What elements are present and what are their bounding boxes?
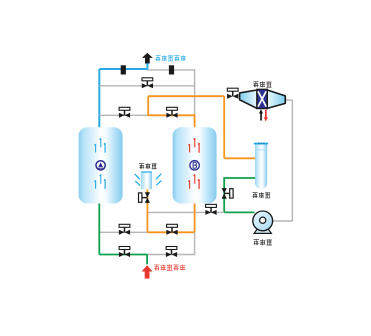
pipe: grey riser row3-row4 at tower B column bbox=[147, 232, 194, 255]
pipe: row2b grey left segment bbox=[99, 114, 148, 116]
muffler exhaust spray lines bbox=[135, 174, 161, 185]
green line valve at heater loop bbox=[222, 188, 233, 199]
muffler drain valve bbox=[139, 192, 151, 203]
tower B emblem (circle-B) bbox=[190, 161, 199, 170]
label 鼓风机 bbox=[254, 239, 272, 245]
label 表冷器 bbox=[253, 81, 271, 87]
tower B desiccant spray marks (red) bbox=[189, 138, 200, 189]
pipe: grey muffler/blower row bbox=[147, 211, 224, 213]
pipe: row2b orange segment into tower B bbox=[147, 114, 194, 128]
cooler inlet valve bbox=[227, 88, 238, 99]
pipe: dry-air outlet header (cyan) row1 bbox=[99, 69, 147, 129]
globe valve blower row bbox=[205, 204, 216, 215]
label 潮湿气输入 (red) bbox=[154, 265, 185, 271]
pipe: orange cooler feed line bbox=[148, 96, 224, 158]
pipe: orange heater feed bbox=[224, 157, 255, 159]
dry air outlet arrow bbox=[142, 53, 153, 70]
cooler water arrows bbox=[259, 109, 268, 121]
globe valve row4 left bbox=[119, 247, 130, 258]
globe valve row3 left bbox=[119, 224, 130, 235]
black shutoff valve row1 left bbox=[121, 65, 126, 74]
pipe: row3 grey left segment bbox=[99, 231, 147, 233]
blower (鼓风机) base bbox=[254, 228, 271, 233]
globe valve row3 right bbox=[166, 224, 177, 235]
cooler (表冷器) body bbox=[240, 89, 286, 108]
vessel: adsorption tower A bbox=[79, 127, 123, 203]
muffler cylinder bbox=[141, 171, 152, 189]
globe valve row2 center bbox=[142, 78, 153, 89]
pipe: row1 grey segment to right riser bbox=[147, 69, 194, 116]
globe valve row2b right bbox=[166, 107, 177, 118]
vessel: adsorption tower B bbox=[173, 127, 217, 203]
tower A emblem (circle-A) bbox=[96, 161, 105, 170]
label 加热器 bbox=[253, 192, 271, 198]
globe valve row2b left bbox=[119, 107, 130, 118]
pipe: green wet-air inlet row4 bbox=[99, 203, 147, 265]
black shutoff valve row1 right bbox=[169, 65, 174, 74]
globe valve row4 right bbox=[166, 247, 177, 258]
pipe: row2 grey crossover bbox=[99, 85, 194, 87]
label 干燥气输出 (cyan) bbox=[155, 55, 185, 61]
pipe: grey cooler outlet to blower bbox=[273, 100, 292, 221]
pipe: row3 orange segment from tower B bbox=[147, 203, 194, 232]
tower A desiccant spray marks (blue) bbox=[95, 138, 106, 189]
blower body bbox=[253, 211, 273, 231]
pipe: orange muffler drain line bbox=[146, 189, 148, 232]
pipe: green heater outlet loop bbox=[224, 177, 255, 212]
heater (加热器) body bbox=[254, 143, 269, 189]
label 消声器 bbox=[139, 163, 156, 169]
wet air inlet arrow (red) bbox=[142, 265, 153, 278]
